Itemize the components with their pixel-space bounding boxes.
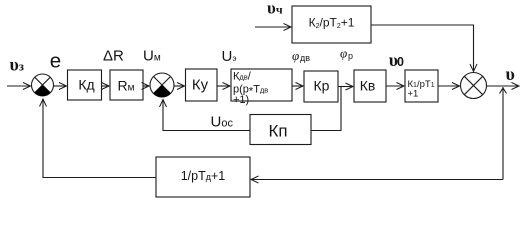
svg-text:1/рТд+1: 1/рТд+1 <box>181 169 226 183</box>
svg-text:+1): +1) <box>233 94 249 106</box>
svg-text:Кв: Кв <box>360 78 376 94</box>
svg-text:υ: υ <box>506 64 515 84</box>
svg-text:υз: υз <box>10 54 24 74</box>
svg-text:Кр: Кр <box>314 78 330 94</box>
svg-text:Uм: Uм <box>143 48 161 65</box>
svg-text:Кдв/: Кдв/ <box>233 70 252 82</box>
svg-text:φ: φ <box>292 48 299 63</box>
svg-text:e: e <box>50 50 61 73</box>
svg-text:Ку: Ку <box>192 77 209 94</box>
svg-text:ΔR: ΔR <box>103 48 124 65</box>
svg-text:Rм: Rм <box>118 78 135 94</box>
svg-text:φ: φ <box>340 46 347 61</box>
svg-text:Кп: Кп <box>268 122 287 141</box>
svg-text:υч: υч <box>267 0 283 18</box>
svg-text:0: 0 <box>397 55 404 69</box>
svg-text:+1: +1 <box>408 89 419 100</box>
svg-text:Кд: Кд <box>78 77 94 93</box>
svg-text:Uос: Uос <box>211 114 234 131</box>
svg-text:К2/рТ2+1: К2/рТ2+1 <box>309 16 355 31</box>
svg-text:р: р <box>348 51 353 61</box>
svg-text:дв: дв <box>300 53 310 63</box>
svg-text:Uэ: Uэ <box>222 48 237 65</box>
